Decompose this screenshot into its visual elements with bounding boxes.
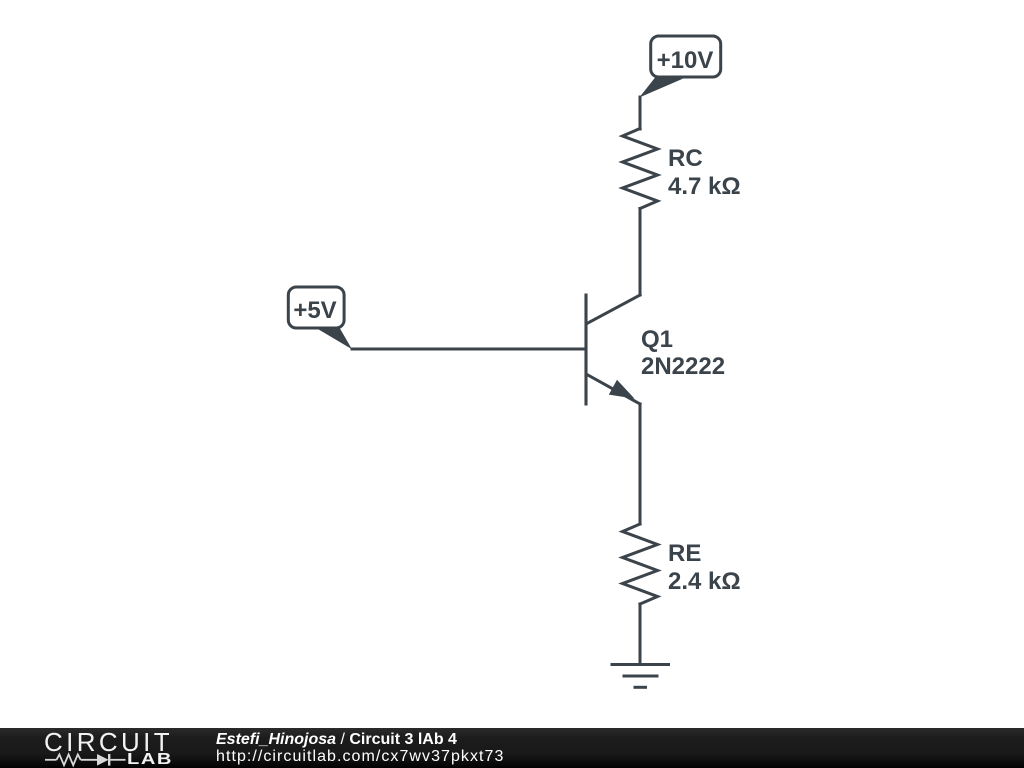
wire +5V flag to Q1 base [352,348,586,351]
svg-text:Q1: Q1 [641,326,673,353]
label RC 4.7 kΩ [668,145,741,200]
label RE 2.4 kΩ [668,540,741,595]
resistor RE [623,524,658,604]
svg-text:RC: RC [668,145,703,172]
CircuitLab logo [0,728,200,768]
svg-text:LAB: LAB [127,751,173,768]
svg-text:+5V: +5V [293,297,336,324]
footer bar [0,728,1024,768]
svg-text:2.4 kΩ: 2.4 kΩ [668,568,741,595]
label Q1 2N2222 [641,326,725,380]
svg-text:4.7 kΩ: 4.7 kΩ [668,173,741,200]
node +5V input flag [288,287,352,349]
svg-text:RE: RE [668,540,701,567]
node +10V power flag [639,36,720,98]
resistor RC [623,129,658,209]
wire RE to ground [639,604,642,665]
wire RC to Q1 collector [639,209,642,296]
wire +10V flag to RC [639,97,642,129]
svg-text:+10V: +10V [657,47,714,74]
svg-text:2N2222: 2N2222 [641,353,725,380]
transistor Q1 [586,295,640,404]
wire Q1 emitter to RE [639,404,642,524]
ground [612,665,669,688]
